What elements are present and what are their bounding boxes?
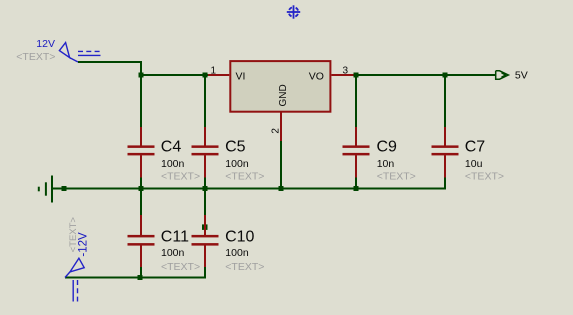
- power terminal -12V symbol: [65, 258, 84, 301]
- svg-text:GND: GND: [278, 84, 289, 106]
- svg-text:C10: C10: [225, 228, 254, 245]
- junction dot at (205,188.5): [203, 186, 208, 191]
- svg-text:VI: VI: [236, 71, 246, 83]
- capacitor C4: [128, 127, 155, 190]
- svg-text:5V: 5V: [515, 70, 528, 82]
- svg-text:-12V: -12V: [78, 232, 90, 257]
- svg-text:3: 3: [343, 65, 349, 76]
- wire top rail to pin1: [141, 74, 208, 76]
- svg-text:C5: C5: [225, 139, 246, 156]
- junction dot at (356,75): [354, 73, 359, 78]
- wire VO to 5V: [356, 74, 496, 76]
- junction dot at (140,277.5): [138, 275, 143, 280]
- svg-text:C4: C4: [161, 139, 182, 156]
- svg-text:100n: 100n: [161, 247, 185, 259]
- regulator body: [230, 61, 330, 112]
- svg-text:C11: C11: [161, 228, 189, 245]
- svg-text:10n: 10n: [377, 158, 395, 170]
- svg-text:<TEXT>: <TEXT>: [16, 51, 55, 63]
- junction dot at (205,75): [203, 73, 208, 78]
- svg-text:<TEXT>: <TEXT>: [225, 261, 264, 273]
- svg-text:C9: C9: [377, 139, 398, 156]
- svg-text:1: 1: [211, 65, 217, 76]
- wire regulator GND to rail: [280, 141, 282, 190]
- svg-text:<TEXT>: <TEXT>: [161, 261, 200, 273]
- svg-text:<TEXT>: <TEXT>: [161, 170, 200, 182]
- svg-text:<TEXT>: <TEXT>: [68, 217, 79, 253]
- junction dot at (141,75): [139, 73, 144, 78]
- junction dot at (64,188.5): [62, 186, 67, 191]
- wire 12V feed vertical: [140, 61, 142, 127]
- junction dot at (356,188.5): [354, 186, 359, 191]
- svg-text:<TEXT>: <TEXT>: [377, 170, 416, 182]
- svg-text:100n: 100n: [161, 158, 185, 170]
- ground rail: [52, 188, 445, 190]
- pin 2 stub: [280, 112, 282, 141]
- capacitor C9: [343, 75, 370, 190]
- capacitor C5: [192, 75, 219, 190]
- capacitor C11: [128, 189, 155, 278]
- junction dot at (281,188.5): [279, 186, 284, 191]
- ground symbol: [39, 176, 52, 203]
- svg-text:<TEXT>: <TEXT>: [465, 170, 504, 182]
- svg-text:10u: 10u: [465, 158, 483, 170]
- pin 3 stub: [331, 74, 356, 76]
- power terminal 5V symbol: [496, 71, 509, 79]
- svg-text:100n: 100n: [225, 158, 249, 170]
- junction dot at (445,75): [443, 73, 448, 78]
- pin 1 stub: [208, 74, 229, 76]
- bottom rail: [65, 277, 206, 279]
- wire rail corner up to C7: [444, 178, 446, 190]
- wire 12V feed horizontal: [78, 61, 142, 63]
- svg-text:C7: C7: [465, 139, 486, 156]
- capacitor C7: [432, 75, 459, 190]
- svg-text:12V: 12V: [36, 38, 55, 50]
- svg-text:VO: VO: [309, 71, 324, 83]
- capacitor C10: [192, 189, 219, 279]
- power terminal 12V symbol: [59, 43, 100, 62]
- svg-text:2: 2: [271, 128, 282, 134]
- svg-text:<TEXT>: <TEXT>: [225, 170, 264, 182]
- svg-text:100n: 100n: [225, 247, 249, 259]
- junction dot at (141,188.5): [139, 186, 144, 191]
- origin marker: [287, 5, 300, 18]
